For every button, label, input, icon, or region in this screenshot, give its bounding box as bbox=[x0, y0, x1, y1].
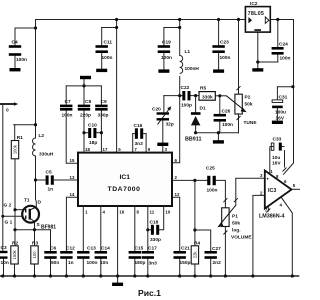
capacitor C20 variable bbox=[152, 106, 174, 127]
svg-text:330k: 330k bbox=[202, 95, 213, 101]
antenna bbox=[0, 102, 18, 113]
svg-text:C19: C19 bbox=[162, 40, 171, 46]
wire P2 bottom to TUNE bus bbox=[238, 114, 240, 133]
wire C10 bridge leads bbox=[84, 132, 88, 134]
svg-text:C13: C13 bbox=[87, 246, 96, 252]
svg-text:15: 15 bbox=[70, 158, 75, 163]
wire C18 bridge left bbox=[148, 229, 151, 231]
ground bar C11 bbox=[96, 69, 107, 72]
svg-text:D1: D1 bbox=[200, 106, 206, 112]
capacitor C14 bbox=[95, 246, 111, 267]
wire C31 branch from right edge bbox=[277, 86, 293, 88]
capacitor C3 bbox=[0, 245, 9, 266]
svg-text:50k: 50k bbox=[245, 102, 253, 108]
wire C11 column bbox=[101, 28, 103, 46]
svg-text:17: 17 bbox=[103, 147, 108, 152]
ground bar C4 bbox=[10, 68, 21, 71]
wire C33 right lead to IC3 pin8 bbox=[284, 151, 286, 168]
transistor T1 BF981 bbox=[4, 198, 57, 231]
svg-text:C5: C5 bbox=[46, 170, 52, 176]
wire pin8 column to C15 bbox=[134, 206, 136, 251]
wire ground bar stub under IC2 bbox=[257, 62, 259, 68]
svg-text:Рис.1: Рис.1 bbox=[138, 288, 161, 298]
svg-text:C12: C12 bbox=[66, 246, 75, 252]
capacitor C13 bbox=[77, 246, 97, 267]
svg-text:18p: 18p bbox=[89, 140, 97, 146]
wire C31 top lead bbox=[276, 87, 278, 100]
svg-text:D: D bbox=[38, 200, 42, 206]
svg-text:330p: 330p bbox=[150, 237, 161, 243]
wire C8 bottom to pin18 bbox=[83, 111, 85, 153]
svg-text:3: 3 bbox=[165, 147, 168, 152]
svg-text:S: S bbox=[37, 222, 41, 228]
wire TUNE ground stub bbox=[217, 133, 219, 141]
svg-text:100u: 100u bbox=[275, 110, 286, 116]
wire C17 bottom to rail bbox=[147, 259, 149, 276]
svg-text:C7: C7 bbox=[65, 99, 71, 105]
capacitor C17 bbox=[142, 246, 158, 267]
wire C19 dogleg bbox=[164, 27, 180, 29]
svg-text:10u: 10u bbox=[272, 155, 280, 161]
svg-text:100n: 100n bbox=[16, 57, 27, 63]
svg-text:14: 14 bbox=[70, 192, 75, 197]
wire R1 branch bbox=[14, 124, 36, 126]
svg-text:R3: R3 bbox=[32, 241, 38, 247]
svg-text:1n: 1n bbox=[48, 187, 54, 193]
wire C20 top column bbox=[163, 96, 165, 113]
svg-text:18: 18 bbox=[85, 147, 90, 152]
svg-text:BB911: BB911 bbox=[185, 137, 201, 143]
svg-text:100nH: 100nH bbox=[185, 66, 200, 72]
wire T1 source bbox=[34, 223, 36, 230]
wire R4 bottom to rail bbox=[194, 264, 196, 276]
wire pin4 column to C14 bbox=[100, 206, 102, 251]
wire IC1 pin2 audio out bbox=[172, 179, 207, 181]
svg-text:IC3: IC3 bbox=[268, 188, 276, 194]
capacitor C23 bbox=[212, 40, 230, 62]
wire IC3 pin3 input bbox=[236, 178, 265, 205]
svg-text:C10: C10 bbox=[88, 123, 97, 129]
svg-text:100: 100 bbox=[32, 251, 37, 259]
svg-text:C18: C18 bbox=[150, 220, 159, 226]
svg-text:C21: C21 bbox=[181, 246, 190, 252]
wire C5 to pin13 bbox=[54, 179, 78, 181]
svg-text:C33: C33 bbox=[273, 137, 282, 143]
inductor L1 bbox=[180, 56, 183, 74]
svg-text:6: 6 bbox=[284, 179, 287, 184]
svg-text:5: 5 bbox=[118, 147, 121, 152]
wire left main vertical from rail to T1 drain bbox=[35, 20, 37, 139]
wire R3 top lead bbox=[34, 230, 36, 246]
svg-text:150k: 150k bbox=[12, 249, 17, 259]
svg-text:+: + bbox=[266, 177, 269, 182]
wire C20 bottom to bar and pin3 bbox=[162, 121, 164, 143]
wire C14 bottom to rail bbox=[100, 259, 102, 276]
svg-text:C24: C24 bbox=[279, 42, 288, 48]
wire R4 column from pin2 node bbox=[194, 180, 196, 245]
svg-text:78L05: 78L05 bbox=[248, 11, 265, 17]
wire C21 bottom to rail bbox=[179, 259, 181, 276]
svg-text:C16: C16 bbox=[134, 123, 143, 129]
wire R3 bottom to rail bbox=[34, 264, 36, 276]
capacitor C7 bbox=[60, 99, 73, 119]
svg-text:C14: C14 bbox=[101, 246, 110, 252]
wire IC3 pin7 stub bbox=[267, 206, 269, 211]
svg-text:R5: R5 bbox=[200, 86, 206, 92]
wire antenna vertical bbox=[2, 104, 4, 251]
wire IC3 output pin5 bbox=[292, 188, 301, 190]
svg-text:P1: P1 bbox=[232, 214, 238, 220]
svg-text:100k: 100k bbox=[13, 144, 18, 154]
capacitor C21 bbox=[174, 246, 191, 267]
IC1 TDA7000 bbox=[70, 147, 180, 215]
svg-text:100n: 100n bbox=[102, 55, 113, 61]
svg-text:C9: C9 bbox=[101, 99, 107, 105]
svg-text:C17: C17 bbox=[148, 246, 157, 252]
wire C24 column bbox=[277, 20, 279, 48]
wire C9 bottom to pin17 bbox=[100, 111, 102, 153]
svg-text:10: 10 bbox=[165, 210, 170, 215]
wire R1 top lead bbox=[14, 125, 16, 141]
ground bar TUNE bbox=[213, 140, 224, 143]
capacitor C33 electrolytic bbox=[270, 137, 285, 167]
wire C16 bridge pin7 bbox=[133, 133, 135, 135]
svg-text:TUNE: TUNE bbox=[244, 120, 258, 126]
slash pin8 bbox=[283, 168, 287, 172]
potentiometer P2 bbox=[226, 86, 257, 126]
capacitor C27 bbox=[205, 246, 222, 266]
wire pin16 column to rail bbox=[117, 206, 119, 276]
wire C5 branch from drain node bbox=[36, 179, 46, 181]
capacitor C25 bbox=[206, 166, 218, 194]
potentiometer P1 bbox=[217, 198, 252, 240]
wire P2 top from rail bbox=[238, 20, 240, 95]
capacitor C16 bbox=[134, 123, 144, 147]
svg-text:180p: 180p bbox=[135, 260, 146, 266]
wire C27 branch bbox=[195, 230, 211, 251]
wire C8 top stub bbox=[83, 86, 85, 105]
wire pin5 supply column bbox=[116, 20, 118, 153]
wire P1 top lead bbox=[224, 204, 226, 208]
wire C9 top stub bbox=[100, 86, 102, 105]
ground bar C31 bbox=[272, 121, 283, 124]
capacitor C6 bbox=[44, 246, 59, 267]
capacitor C11 bbox=[96, 40, 113, 62]
wire C19 column bbox=[163, 28, 165, 46]
svg-text:T1: T1 bbox=[24, 198, 30, 204]
svg-text:220p: 220p bbox=[80, 113, 91, 119]
capacitor C4 bbox=[9, 40, 27, 63]
capacitor C31 electrolytic bbox=[272, 95, 288, 122]
wire bottom ground rail bbox=[0, 275, 299, 277]
wire pin11 column through C18 node to C17 bbox=[147, 206, 149, 251]
wire C27 bottom to rail bbox=[210, 259, 212, 276]
svg-text:1: 1 bbox=[270, 169, 273, 174]
wire C26 column bbox=[219, 96, 221, 114]
ground bar C19 bbox=[158, 69, 169, 72]
svg-text:5: 5 bbox=[293, 183, 296, 188]
capacitor C24 bbox=[272, 42, 291, 62]
svg-text:8: 8 bbox=[276, 174, 279, 179]
ground bar over bus bbox=[80, 76, 91, 79]
svg-text:8: 8 bbox=[137, 210, 140, 215]
svg-text:C26: C26 bbox=[222, 109, 231, 115]
wire L1 pin6 column bbox=[179, 20, 181, 56]
inductor L2 bbox=[33, 138, 36, 156]
wire C13 bottom to rail bbox=[82, 259, 84, 276]
wire C16 bridge pin9 bbox=[144, 133, 147, 135]
svg-text:C20: C20 bbox=[152, 107, 161, 113]
wire ground bus over C7 C8 C9 bbox=[66, 85, 101, 87]
svg-text:6: 6 bbox=[175, 158, 178, 163]
wire gate1 of T1 bbox=[3, 215, 24, 217]
wire IC3 pin4 to rail bbox=[280, 196, 292, 276]
wire C31 bottom lead to ground bar bbox=[276, 108, 278, 120]
svg-text:10n: 10n bbox=[100, 260, 108, 266]
svg-text:C15: C15 bbox=[135, 246, 144, 252]
resistor R5 bbox=[199, 86, 215, 101]
svg-text:L2: L2 bbox=[39, 133, 45, 139]
rail junction dots bbox=[1, 274, 4, 277]
wire right edge supply drop to IC3 pin6 bbox=[284, 20, 294, 175]
ground bar C20 pin3 bbox=[157, 143, 168, 146]
wire gate2 of T1 bbox=[15, 209, 24, 211]
svg-text:9: 9 bbox=[148, 147, 151, 152]
svg-text:100n: 100n bbox=[280, 56, 291, 62]
svg-text:3n3: 3n3 bbox=[149, 261, 158, 267]
svg-text:2: 2 bbox=[175, 175, 178, 180]
svg-text:C11: C11 bbox=[104, 40, 113, 46]
capacitor C26 bbox=[214, 109, 233, 129]
svg-text:VOLUME: VOLUME bbox=[231, 235, 252, 241]
svg-text:C31: C31 bbox=[279, 95, 288, 101]
wire C23 column bbox=[218, 20, 220, 46]
capacitor C8 bbox=[78, 99, 92, 119]
svg-text:7: 7 bbox=[134, 147, 137, 152]
svg-text:R4: R4 bbox=[194, 241, 200, 247]
wire R2 bottom to rail bbox=[14, 264, 16, 276]
wire D1 top lead bbox=[195, 96, 197, 113]
svg-text:13: 13 bbox=[70, 175, 75, 180]
ground bar C23 bbox=[213, 69, 224, 72]
IC2 78L05 bbox=[245, 1, 270, 32]
wire C11 dogleg bbox=[102, 27, 117, 29]
svg-text:32p: 32p bbox=[166, 122, 174, 128]
wire L2 bottom to T1 drain bbox=[35, 156, 38, 207]
svg-text:C3: C3 bbox=[1, 245, 7, 251]
wire top +V rail bbox=[36, 19, 294, 21]
svg-text:100n: 100n bbox=[62, 113, 73, 119]
svg-text:4: 4 bbox=[280, 203, 283, 208]
svg-text:100n: 100n bbox=[87, 260, 98, 266]
slash pin7 bbox=[266, 209, 270, 213]
svg-text:2: 2 bbox=[260, 190, 263, 195]
capacitor C12 bbox=[60, 246, 75, 267]
svg-text:C22: C22 bbox=[181, 85, 190, 91]
svg-text:50k: 50k bbox=[232, 221, 240, 227]
svg-text:1: 1 bbox=[85, 210, 88, 215]
wire C33 left lead to IC3 pin1 bbox=[269, 150, 271, 174]
wire P1 bottom to rail bbox=[224, 227, 226, 277]
wire C6 column bbox=[50, 230, 52, 251]
wire C25 right to P1 top corner bbox=[216, 180, 226, 203]
wire pin14 to C12 bbox=[66, 197, 78, 251]
svg-text:G 1: G 1 bbox=[5, 220, 13, 226]
IC3 LM386N-4 bbox=[259, 168, 296, 220]
svg-text:G 2: G 2 bbox=[4, 203, 12, 209]
capacitor C9 bbox=[95, 99, 108, 119]
main ground symbol bbox=[112, 283, 123, 286]
svg-text:100n: 100n bbox=[220, 55, 231, 61]
capacitor C5 bbox=[46, 170, 54, 193]
capacitor C10 bbox=[88, 123, 97, 147]
svg-text:16: 16 bbox=[119, 210, 124, 215]
varicap D1 BB911 bbox=[185, 106, 206, 143]
svg-text:3: 3 bbox=[260, 173, 263, 178]
ground bar IC2 bbox=[252, 68, 263, 71]
resistor R2 bbox=[11, 241, 19, 265]
wire main ground stub below rail bbox=[117, 276, 119, 283]
svg-text:IC2: IC2 bbox=[250, 1, 258, 7]
wire IC3 pin2 to ground bbox=[253, 195, 265, 276]
svg-text:11: 11 bbox=[150, 210, 155, 215]
svg-text:22k: 22k bbox=[193, 251, 198, 259]
svg-text:100n: 100n bbox=[207, 188, 218, 194]
capacitor C22 bbox=[181, 85, 193, 109]
wire C24 ground link bbox=[258, 61, 278, 63]
wire source bus bbox=[15, 229, 51, 231]
svg-text:L1: L1 bbox=[185, 49, 191, 55]
wire VCO line C22 to L1 column bbox=[164, 95, 182, 97]
svg-text:10n: 10n bbox=[1, 260, 9, 266]
wire pin15 from C7 bbox=[66, 111, 78, 164]
svg-text:330p: 330p bbox=[98, 113, 109, 119]
capacitor C15 bbox=[129, 246, 146, 267]
svg-text:C6: C6 bbox=[50, 246, 56, 252]
wire pin1 column to C13 bbox=[82, 206, 84, 251]
svg-text:C8: C8 bbox=[85, 99, 91, 105]
svg-text:12: 12 bbox=[175, 192, 180, 197]
svg-text:C4: C4 bbox=[12, 40, 18, 46]
wire C4 branch bbox=[15, 27, 36, 29]
svg-text:4: 4 bbox=[103, 210, 106, 215]
capacitor C19 bbox=[158, 40, 172, 62]
wire C3 bottom to rail bbox=[3, 259, 5, 276]
wire C7 top stub bbox=[65, 86, 67, 105]
resistor R3 bbox=[31, 241, 39, 265]
capacitor C18 bbox=[150, 220, 162, 244]
wire TUNE bus bbox=[196, 132, 239, 134]
svg-text:2n2: 2n2 bbox=[213, 260, 222, 266]
svg-text:BF981: BF981 bbox=[41, 225, 56, 231]
wire C12 bottom to rail bbox=[65, 259, 67, 276]
svg-text:log.: log. bbox=[232, 228, 241, 234]
wire C4 column bbox=[14, 28, 16, 45]
resistor R1 bbox=[11, 135, 23, 159]
wire bus bar stub bbox=[83, 79, 85, 86]
svg-text:330uH: 330uH bbox=[39, 152, 54, 158]
svg-text:16V: 16V bbox=[272, 161, 281, 167]
svg-text:100p: 100p bbox=[181, 103, 192, 109]
svg-text:150p: 150p bbox=[180, 260, 191, 266]
svg-text:50n: 50n bbox=[51, 260, 59, 266]
svg-text:LM386N-4: LM386N-4 bbox=[259, 214, 284, 220]
wire pin12 column to C21 bbox=[172, 197, 180, 251]
svg-text:C23: C23 bbox=[220, 40, 229, 46]
svg-text:P2: P2 bbox=[245, 95, 251, 101]
wire R1 bottom to R2 top bbox=[14, 159, 16, 246]
svg-text:TDA7000: TDA7000 bbox=[108, 186, 141, 193]
wire C18 bridge right to pin10 bbox=[160, 206, 164, 230]
svg-text:100n: 100n bbox=[161, 55, 172, 61]
resistor R4 bbox=[191, 241, 200, 265]
svg-text:1n: 1n bbox=[68, 260, 74, 266]
wire C22 right to D1 node and R5 bbox=[191, 95, 199, 97]
wire D1 bottom lead bbox=[195, 125, 197, 132]
svg-text:C25: C25 bbox=[206, 166, 215, 172]
svg-text:C27: C27 bbox=[212, 246, 221, 252]
svg-text:IC1: IC1 bbox=[120, 174, 131, 181]
wire C15 bottom to rail bbox=[134, 259, 136, 276]
wire IC2 ground stub bbox=[257, 32, 259, 62]
svg-text:R2: R2 bbox=[12, 241, 18, 247]
svg-text:0: 0 bbox=[6, 108, 9, 114]
svg-text:100n: 100n bbox=[222, 122, 233, 128]
wire R5 right to wiper node bbox=[215, 95, 226, 97]
svg-text:R1: R1 bbox=[17, 135, 23, 141]
